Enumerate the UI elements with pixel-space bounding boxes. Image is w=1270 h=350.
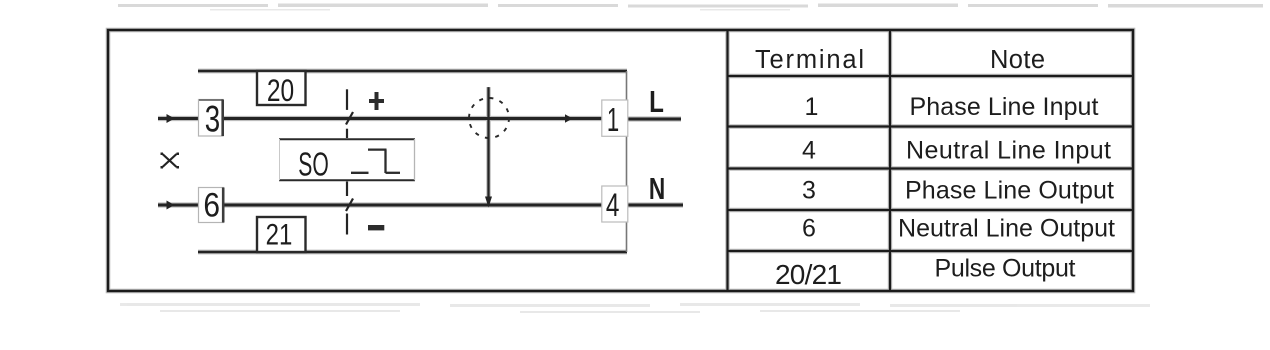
- svg-text:1: 1: [805, 93, 819, 121]
- wire: N output segment: [628, 204, 683, 207]
- arrow on neutral input wire: [167, 201, 175, 210]
- svg-text:Neutral Line Input: Neutral Line Input: [906, 137, 1111, 165]
- current sense line through CT: [487, 87, 489, 200]
- svg-text:Phase Line Output: Phase Line Output: [905, 177, 1114, 205]
- scan smudge bottom: [120, 303, 1150, 313]
- svg-text:1: 1: [607, 101, 619, 139]
- wire: phase line input left segment: [158, 117, 198, 120]
- terminal 20 box (pulse +): [257, 71, 306, 105]
- svg-text:21: 21: [266, 217, 293, 251]
- current transformer CT: dashed circle: [469, 98, 509, 138]
- plus polarity mark: [369, 92, 384, 110]
- terminal 1 box: [602, 100, 628, 136]
- arrow on phase wire near terminal 1: [565, 114, 573, 123]
- scan halo underlay: [108, 30, 1133, 291]
- svg-text:Terminal: Terminal: [755, 46, 864, 74]
- arrow at bottom of sense line: [485, 197, 492, 208]
- pulse waveform icon: [351, 150, 400, 173]
- svg-text:Neutral Line Output: Neutral Line Output: [898, 215, 1115, 243]
- svg-text:L: L: [649, 84, 664, 119]
- svg-text:20/21: 20/21: [775, 259, 842, 290]
- table: row line 4: [728, 209, 1134, 211]
- wire: phase line through meter: [223, 117, 602, 120]
- meter body outline: right edge: [626, 71, 628, 252]
- minus polarity mark: [368, 225, 384, 230]
- svg-text:Note: Note: [990, 46, 1045, 74]
- wire: neutral line through meter: [224, 204, 602, 207]
- scan smudge top: [118, 4, 1263, 11]
- terminal 4 box: [602, 186, 628, 222]
- table: row line 5: [728, 250, 1134, 252]
- svg-text:3: 3: [802, 177, 816, 205]
- dashed pulse wire upper (terminal 20 to SO box): [346, 89, 353, 138]
- meter body outline: top edge: [198, 70, 627, 73]
- terminal 3 box: [199, 100, 224, 137]
- dashed pulse wire lower (SO box to terminal 21): [346, 182, 353, 235]
- table: left border: [726, 30, 728, 291]
- x mark (no-connection symbol): [163, 155, 176, 167]
- svg-text:N: N: [649, 170, 665, 205]
- svg-text:4: 4: [802, 137, 816, 165]
- svg-text:6: 6: [802, 215, 816, 243]
- arrow on phase input wire: [167, 114, 175, 123]
- svg-text:Phase Line Input: Phase Line Input: [910, 93, 1099, 121]
- outer frame of figure: [108, 30, 1133, 291]
- table: row line 3: [728, 167, 1134, 169]
- table: row line under header: [728, 75, 1134, 77]
- meter body outline: bottom edge: [198, 251, 627, 254]
- wire: neutral line input left segment: [158, 204, 198, 207]
- svg-text:20: 20: [267, 72, 294, 108]
- table: row line 2: [728, 125, 1134, 127]
- svg-text:4: 4: [606, 188, 620, 224]
- svg-text:6: 6: [203, 186, 220, 224]
- svg-text:3: 3: [205, 98, 220, 140]
- svg-text:SO: SO: [298, 146, 329, 183]
- SO pulse output box: [279, 139, 415, 180]
- wire: L output segment: [628, 118, 681, 121]
- terminal 6 box: [199, 188, 224, 223]
- terminal 21 box (pulse -): [257, 217, 306, 252]
- table: column divider: [889, 30, 891, 291]
- svg-text:Pulse Output: Pulse Output: [935, 255, 1076, 283]
